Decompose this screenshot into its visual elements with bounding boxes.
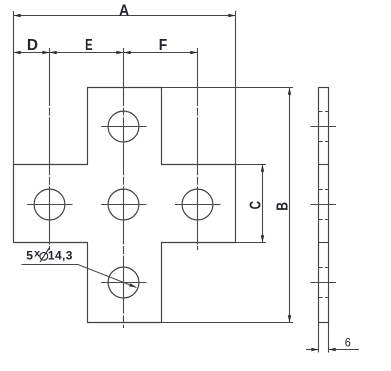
- arrowhead C top: [261, 165, 264, 172]
- centerline horizontal, top hole: [101, 126, 147, 128]
- centerline horizontal, bottom hole: [101, 282, 147, 284]
- dimension line 6 right segment: [329, 349, 360, 351]
- side view centerline bottom hole: [311, 282, 337, 284]
- label C (rotated): [246, 201, 264, 209]
- arrowhead D right: [42, 51, 49, 54]
- dimension line C: [262, 165, 264, 243]
- side view centerline middle holes: [311, 204, 337, 206]
- arrowhead B top: [288, 88, 291, 95]
- arrowhead E right: [116, 51, 123, 54]
- svg-text:D: D: [27, 37, 38, 54]
- extension line 6 left: [318, 323, 320, 353]
- arrowhead F right: [190, 51, 197, 54]
- extension line C bottom: [236, 242, 267, 244]
- centerline vertical, left hole column: [49, 48, 51, 250]
- leader line 5xØ14,3: [22, 265, 137, 288]
- dimension line B: [289, 88, 291, 323]
- label F: [159, 36, 167, 54]
- svg-text:14,3: 14,3: [48, 248, 73, 262]
- extension line left (for A and D): [13, 11, 15, 165]
- svg-text:C: C: [246, 201, 264, 209]
- arrowhead C bottom: [261, 235, 264, 242]
- arrowhead A right: [228, 14, 235, 17]
- centerline horizontal, right hole: [175, 204, 221, 206]
- label D: [27, 37, 38, 54]
- label B (rotated): [274, 202, 292, 211]
- side view edge at arm top: [319, 164, 329, 166]
- arrowhead D left: [14, 51, 21, 54]
- arrowhead leader: [129, 283, 136, 287]
- arrowhead 6 right: [329, 348, 336, 351]
- plate outline (front view, cross shape): [14, 88, 236, 323]
- arrowhead B bottom: [288, 315, 291, 322]
- centerline vertical, right hole column: [197, 48, 199, 250]
- note diameter symbol slash: [40, 248, 49, 262]
- centerline vertical, center hole column: [123, 48, 125, 328]
- svg-text:F: F: [159, 36, 167, 54]
- arrowhead F left: [124, 51, 131, 54]
- hidden line bottom hole upper edge: [319, 267, 329, 269]
- side view centerline top hole: [311, 126, 337, 128]
- svg-text:A: A: [119, 2, 129, 20]
- extension line right (for A): [235, 11, 237, 165]
- hole right Ø14,3: [182, 189, 213, 220]
- extension line C top: [236, 164, 267, 166]
- arrowhead 6 left: [311, 348, 318, 351]
- hole bottom Ø14,3: [108, 267, 139, 298]
- dimension line D-E-F row: [14, 52, 198, 54]
- hidden line bottom hole lower edge: [319, 297, 329, 299]
- side view plate body: [319, 88, 329, 323]
- svg-text:E: E: [85, 35, 92, 54]
- label E: [85, 35, 92, 54]
- svg-text:x: x: [34, 247, 40, 259]
- side view edge at arm bottom: [319, 242, 329, 244]
- centerline horizontal, left hole: [27, 204, 73, 206]
- dimension line A: [14, 15, 236, 17]
- hidden line top hole lower edge: [319, 141, 329, 143]
- extension line B top: [162, 87, 294, 89]
- arrowhead A left: [14, 14, 21, 17]
- hole center Ø14,3: [108, 189, 139, 220]
- dimension line 6 left segment: [306, 349, 319, 351]
- hole top Ø14,3: [108, 111, 139, 142]
- extension line 6 right: [328, 323, 330, 353]
- arrowhead E left: [50, 51, 57, 54]
- hidden line top hole upper edge: [319, 111, 329, 113]
- svg-text:5: 5: [26, 248, 33, 262]
- svg-text:6: 6: [345, 337, 351, 350]
- centerline horizontal, center hole: [101, 204, 147, 206]
- extension line B bottom: [161, 322, 294, 324]
- hidden line center hole upper edge: [319, 189, 329, 191]
- label A: [119, 2, 129, 20]
- note diameter symbol circle: [40, 252, 48, 260]
- label 6: [345, 337, 351, 350]
- hole left Ø14,3: [34, 189, 65, 220]
- hidden line center hole lower edge: [319, 219, 329, 221]
- svg-text:B: B: [274, 202, 292, 211]
